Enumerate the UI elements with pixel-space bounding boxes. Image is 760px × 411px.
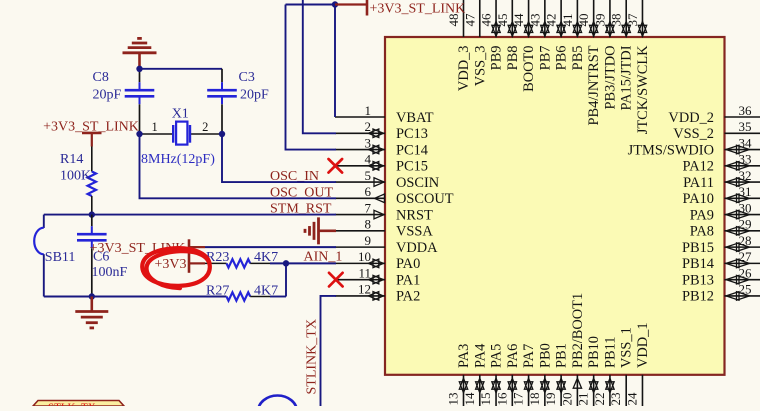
pin 48 (VDD_3) <box>446 0 472 91</box>
svg-text:PB3/JTDO: PB3/JTDO <box>602 46 618 110</box>
svg-text:PA12: PA12 <box>683 159 714 175</box>
svg-text:2: 2 <box>365 119 372 134</box>
svg-text:PA1: PA1 <box>396 272 420 288</box>
svg-text:PA15/JTDI: PA15/JTDI <box>619 45 635 110</box>
svg-text:15: 15 <box>478 393 493 406</box>
pin 43 (PB7) <box>527 0 553 70</box>
ground (VSSA) <box>305 217 336 244</box>
svg-text:8: 8 <box>365 217 372 232</box>
svg-text:18: 18 <box>527 393 542 406</box>
pin 8 (VSSA) <box>335 217 433 240</box>
capacitor C6 <box>77 215 128 297</box>
svg-text:R14: R14 <box>60 152 83 167</box>
svg-text:44: 44 <box>511 13 526 27</box>
svg-text:8MHz(12pF): 8MHz(12pF) <box>141 152 215 167</box>
pin 30 (PA9) <box>690 200 760 223</box>
pin 41 (PB5) <box>560 0 586 70</box>
wire R23 to AIN_1 <box>270 262 336 264</box>
svg-text:AIN_1: AIN_1 <box>304 249 343 264</box>
svg-text:100nF: 100nF <box>92 265 128 280</box>
pin 31 (PA10) <box>683 184 760 207</box>
pin 19 (PB1) <box>543 343 570 406</box>
junction VBAT top <box>332 1 338 7</box>
svg-text:VSSA: VSSA <box>396 224 433 240</box>
pin 5 (OSCIN) <box>335 168 440 191</box>
svg-text:39: 39 <box>592 14 607 27</box>
svg-text:VSS_3: VSS_3 <box>472 46 488 87</box>
pin 44 (BOOT0) <box>511 0 537 92</box>
pin 16 (PA6) <box>494 344 521 406</box>
svg-text:24: 24 <box>624 392 639 406</box>
svg-text:PA10: PA10 <box>683 191 714 207</box>
svg-text:SB11: SB11 <box>45 250 76 265</box>
pin 3 (PC14) <box>335 135 428 158</box>
svg-text:31: 31 <box>739 184 752 199</box>
pin 47 (VSS_3) <box>462 0 488 86</box>
pin 7 (NRST) <box>335 200 433 223</box>
svg-text:37: 37 <box>625 13 640 27</box>
wire top node to C3 branch <box>140 68 223 70</box>
svg-text:PB14: PB14 <box>682 256 714 272</box>
pin 1 (VBAT) <box>335 103 434 126</box>
svg-text:22: 22 <box>592 393 607 406</box>
pin 26 (PB13) <box>682 265 760 288</box>
wire SB11 to bottom rail <box>43 254 45 296</box>
pin 15 (PA5) <box>478 344 505 406</box>
svg-text:VBAT: VBAT <box>396 110 434 126</box>
pin 4 (PC15) <box>335 152 428 175</box>
pin 20 (PB2/BOOT1) <box>559 293 586 406</box>
svg-text:25: 25 <box>739 282 752 297</box>
svg-text:PB12: PB12 <box>682 289 714 305</box>
svg-text:4: 4 <box>365 152 372 167</box>
svg-text:5: 5 <box>365 168 372 183</box>
junction AIN_1 <box>283 260 289 266</box>
svg-text:STLK_TX: STLK_TX <box>48 402 96 407</box>
port STLK_TX (bottom) <box>33 401 124 411</box>
wire STM_RST <box>44 214 336 216</box>
svg-text:PB15: PB15 <box>682 240 714 256</box>
pin 11 (PA1) <box>335 265 420 288</box>
svg-text:36: 36 <box>739 103 753 118</box>
junction X1 pin1 <box>136 131 142 137</box>
svg-text:PB6: PB6 <box>554 46 570 71</box>
svg-text:PA0: PA0 <box>396 256 420 272</box>
svg-text:PA4: PA4 <box>472 344 488 368</box>
svg-text:41: 41 <box>560 14 575 27</box>
svg-text:33: 33 <box>739 152 752 167</box>
capacitor C3 <box>207 70 269 104</box>
wire C3 branch down <box>221 69 223 82</box>
wire left branch to SB11 <box>43 215 45 228</box>
svg-text:27: 27 <box>739 249 753 264</box>
svg-text:+3V3_ST_LINK: +3V3_ST_LINK <box>370 1 466 16</box>
svg-text:VDD_2: VDD_2 <box>668 110 714 126</box>
svg-text:PC15: PC15 <box>396 159 428 175</box>
resistor R14 <box>60 147 96 215</box>
resistor R23 <box>205 250 278 268</box>
pin 29 (PA8) <box>690 217 760 240</box>
svg-text:32: 32 <box>739 168 752 183</box>
pin 39 (PB3/JTDO) <box>592 0 618 109</box>
wire bottom rail <box>44 296 227 298</box>
capacitor C8 <box>93 70 155 104</box>
svg-text:C8: C8 <box>93 70 109 85</box>
svg-text:2: 2 <box>202 120 208 134</box>
svg-text:4K7: 4K7 <box>254 283 278 298</box>
svg-text:PA11: PA11 <box>683 175 714 191</box>
wire AIN junction down <box>285 263 287 296</box>
pin 12 (PA2) <box>335 282 420 305</box>
svg-text:11: 11 <box>358 265 371 280</box>
svg-text:29: 29 <box>739 217 752 232</box>
svg-text:PB9: PB9 <box>489 46 505 71</box>
pin 38 (PA15/JTDI) <box>609 0 635 111</box>
svg-text:PB0: PB0 <box>537 343 553 368</box>
svg-text:VDDA: VDDA <box>396 240 438 256</box>
svg-text:19: 19 <box>543 393 558 406</box>
svg-text:PA2: PA2 <box>396 289 420 305</box>
svg-text:R27: R27 <box>206 283 229 298</box>
svg-text:PC13: PC13 <box>396 126 428 142</box>
svg-text:C3: C3 <box>239 70 255 85</box>
pin 18 (PB0) <box>527 343 554 406</box>
pin 22 (PB11) <box>592 337 619 406</box>
svg-text:12: 12 <box>358 282 371 297</box>
svg-text:JTMS/SWDIO: JTMS/SWDIO <box>628 142 714 158</box>
no-ERC cross pin 4 <box>329 159 343 173</box>
pin 27 (PB14) <box>682 249 760 272</box>
svg-text:JTCK/SWCLK: JTCK/SWCLK <box>635 45 651 134</box>
svg-text:38: 38 <box>609 14 624 27</box>
svg-text:28: 28 <box>739 233 752 248</box>
svg-text:14: 14 <box>462 392 477 406</box>
annotation ellipse around +3V3 <box>142 248 210 288</box>
svg-text:23: 23 <box>608 393 623 406</box>
junction top node <box>136 66 142 72</box>
svg-text:PB7: PB7 <box>537 46 553 71</box>
svg-text:9: 9 <box>365 233 372 248</box>
pin 13 (PA3) <box>446 344 473 406</box>
wire STLINK TX <box>321 296 337 406</box>
svg-text:PA6: PA6 <box>505 344 521 368</box>
svg-text:NRST: NRST <box>396 207 433 223</box>
junction X1 pin2 <box>219 131 225 137</box>
power port +3V3_ST_LINK (R14) <box>43 120 139 147</box>
svg-text:VSS_1: VSS_1 <box>619 327 635 368</box>
IC U1 STM32 microcontroller body <box>385 37 725 375</box>
svg-text:X1: X1 <box>172 107 189 122</box>
svg-text:13: 13 <box>446 393 461 406</box>
svg-text:PA8: PA8 <box>690 224 714 240</box>
power port +3V3_ST_LINK (VDDA) <box>90 239 205 272</box>
svg-text:PB5: PB5 <box>570 46 586 71</box>
wire R27 right lead <box>270 296 286 298</box>
svg-text:42: 42 <box>544 14 559 27</box>
wire OSC_IN <box>222 134 336 182</box>
pin 34 (JTMS/SWDIO) <box>628 135 760 158</box>
pin 14 (PA4) <box>462 344 489 406</box>
svg-text:PB1: PB1 <box>554 343 570 368</box>
svg-text:PA5: PA5 <box>489 344 505 368</box>
svg-text:20pF: 20pF <box>93 88 122 103</box>
svg-text:BOOT0: BOOT0 <box>521 46 537 92</box>
wire C8 to X1 pin1 <box>139 104 141 134</box>
wire VDDA <box>205 246 336 248</box>
svg-text:+3V3: +3V3 <box>154 257 186 272</box>
svg-text:10: 10 <box>358 249 371 264</box>
svg-text:PA3: PA3 <box>456 344 472 368</box>
svg-text:PB13: PB13 <box>682 272 714 288</box>
svg-text:PA7: PA7 <box>521 344 537 368</box>
pin 33 (PA12) <box>683 152 760 175</box>
resistor R27 <box>206 283 278 300</box>
pin 2 (PC13) <box>335 119 428 142</box>
pin 23 (VSS_1) <box>608 327 635 406</box>
svg-text:VDD_1: VDD_1 <box>635 322 651 368</box>
pin 36 (VDD_2) <box>668 103 760 126</box>
svg-text:OSCOUT: OSCOUT <box>396 191 454 207</box>
pin 46 (PB9) <box>479 0 505 70</box>
pin 32 (PA11) <box>683 168 760 191</box>
svg-text:VSS_2: VSS_2 <box>673 126 714 142</box>
svg-text:PC14: PC14 <box>396 142 428 158</box>
svg-text:PA9: PA9 <box>690 207 714 223</box>
svg-text:45: 45 <box>495 14 510 27</box>
crystal X1 <box>140 107 223 168</box>
svg-text:1: 1 <box>152 120 158 134</box>
pin 25 (PB12) <box>682 282 760 305</box>
svg-text:21: 21 <box>576 393 591 406</box>
svg-text:3: 3 <box>365 135 372 150</box>
pin 9 (VDDA) <box>335 233 438 256</box>
no-ERC cross pin 11 <box>329 273 343 287</box>
svg-text:PB2/BOOT1: PB2/BOOT1 <box>570 293 586 368</box>
svg-text:PB8: PB8 <box>505 46 521 71</box>
svg-text:6: 6 <box>365 184 372 199</box>
wire VBAT vertical <box>286 5 336 118</box>
pin 21 (PB10) <box>576 336 603 406</box>
svg-text:40: 40 <box>576 14 591 27</box>
junction C6 bottom <box>89 293 95 299</box>
ground (C6) <box>75 297 108 328</box>
solder bridge SB11 <box>34 228 75 265</box>
pin 42 (PB6) <box>544 0 570 70</box>
wire OSC_OUT <box>140 134 337 198</box>
pin 17 (PA7) <box>511 344 538 406</box>
svg-text:PB11: PB11 <box>602 337 618 368</box>
pin 6 (OSCOUT) <box>335 184 454 207</box>
pin 24 (VDD_1) <box>624 322 651 406</box>
pin 45 (PB8) <box>495 0 521 70</box>
pin 10 (PA0) <box>335 249 420 272</box>
wire PC14 vertical <box>286 5 337 150</box>
pin 28 (PB15) <box>682 233 760 256</box>
pin 40 (PB4/JNTRST) <box>576 0 602 125</box>
junction R14 bottom <box>89 211 95 217</box>
svg-text:OSCIN: OSCIN <box>396 175 440 191</box>
svg-text:30: 30 <box>739 200 752 215</box>
power port +3V3_ST_LINK (top) <box>335 0 465 16</box>
svg-text:16: 16 <box>494 392 509 406</box>
wire C3 to X1 pin2 <box>221 104 223 134</box>
svg-text:STLINK_TX: STLINK_TX <box>305 319 320 394</box>
wire crystal top node <box>139 69 141 82</box>
svg-text:7: 7 <box>365 200 372 215</box>
svg-text:1: 1 <box>365 103 372 118</box>
svg-text:VDD_3: VDD_3 <box>456 46 472 92</box>
annotation circle (bottom) <box>258 396 297 411</box>
svg-text:35: 35 <box>739 119 752 134</box>
power port +3V3 <box>154 257 205 272</box>
pin 35 (VSS_2) <box>673 119 760 142</box>
svg-text:43: 43 <box>527 14 542 27</box>
wire PC13 vertical <box>303 0 336 133</box>
svg-text:PB4/JNTRST: PB4/JNTRST <box>586 45 602 125</box>
svg-text:100K: 100K <box>60 168 91 183</box>
svg-text:17: 17 <box>511 392 526 406</box>
ground (crystal decoupling) <box>123 38 157 68</box>
svg-text:PB10: PB10 <box>586 336 602 368</box>
pin 37 (JTCK/SWCLK) <box>625 0 651 134</box>
svg-text:26: 26 <box>739 265 753 280</box>
svg-text:20pF: 20pF <box>240 88 269 103</box>
svg-text:46: 46 <box>479 13 494 27</box>
svg-text:20: 20 <box>559 393 574 406</box>
svg-text:34: 34 <box>739 135 753 150</box>
